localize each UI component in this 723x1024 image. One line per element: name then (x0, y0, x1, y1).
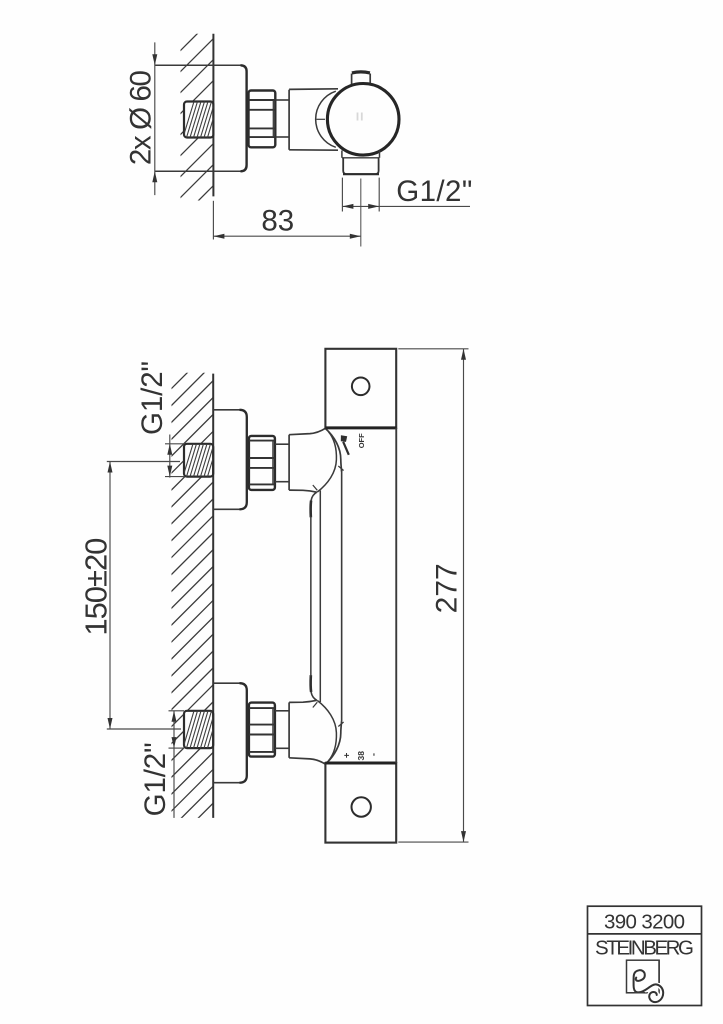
logo square (627, 960, 660, 993)
valve body (side view) (288, 90, 290, 150)
wall face line (front view) (212, 374, 214, 818)
bottom inlet unit (mirrored) (213, 675, 343, 783)
outlet center line (360, 179, 362, 247)
body collar arc behind knob (316, 91, 336, 147)
outlet extension lines (341, 178, 343, 212)
dimension 2x d60 (154, 42, 156, 195)
svg-text:G1/2": G1/2" (139, 742, 172, 816)
thermostat knob (side view) (327, 84, 399, 156)
body bar: middle edges (395, 428, 397, 763)
escutcheon (top unit) (213, 410, 247, 510)
svg-text:277: 277 (430, 563, 463, 613)
svg-text:G1/2": G1/2" (396, 175, 472, 208)
svg-text:150±20: 150±20 (79, 538, 114, 636)
wall face line (side view) (212, 34, 214, 197)
outlet collar (side view) (341, 151, 343, 158)
svg-text:OFF: OFF (357, 433, 366, 448)
threaded nipple (top unit) (184, 444, 213, 477)
svg-text:+: + (341, 752, 352, 758)
dimension 150+-20 (109, 462, 111, 730)
knob top button (side view) (351, 74, 353, 85)
bell housing (top unit) (288, 435, 290, 490)
screw hole top (352, 378, 370, 396)
dimension G1/2 (top unit) (169, 435, 171, 478)
OFF marking + arrow icon (343, 442, 349, 455)
connector cylinder (top unit) (275, 443, 289, 445)
logo swirl (634, 970, 664, 1002)
connector cylinder (side view) (275, 99, 289, 101)
svg-text:390 3200: 390 3200 (604, 911, 685, 934)
body bar: top knob plate (325, 349, 396, 428)
wall hatch (front view) (140, 320, 240, 893)
logo square edges redraw (627, 992, 646, 994)
title box frame (588, 906, 702, 1005)
screw hole bottom (352, 797, 371, 816)
top inlet unit (213, 410, 343, 518)
union nut (side view) (249, 91, 276, 148)
threaded nipple (bottom unit) (184, 711, 213, 748)
wall hatch (side view) (150, 0, 230, 270)
svg-text:2x Ø 60: 2x Ø 60 (124, 70, 157, 165)
dimension 83 (212, 201, 214, 240)
svg-text:STEINBERG: STEINBERG (595, 937, 694, 960)
svg-text:38: 38 (356, 751, 366, 761)
svg-text:83: 83 (261, 205, 294, 238)
dimension 277 (398, 348, 468, 350)
dimension G1/2 (side view outlet) (342, 205, 470, 207)
escutcheon (side view) (155, 64, 241, 66)
svg-text:G1/2": G1/2" (136, 361, 169, 435)
tangent ticks (338, 466, 343, 471)
threaded nipple (side view) (184, 102, 213, 138)
body bar: bottom knob plate (325, 763, 396, 843)
union nut (top unit) (249, 436, 275, 490)
svg-text:-: - (368, 753, 379, 756)
knob grip marks (357, 113, 359, 121)
dimension G1/2 (bottom unit) (173, 711, 175, 818)
